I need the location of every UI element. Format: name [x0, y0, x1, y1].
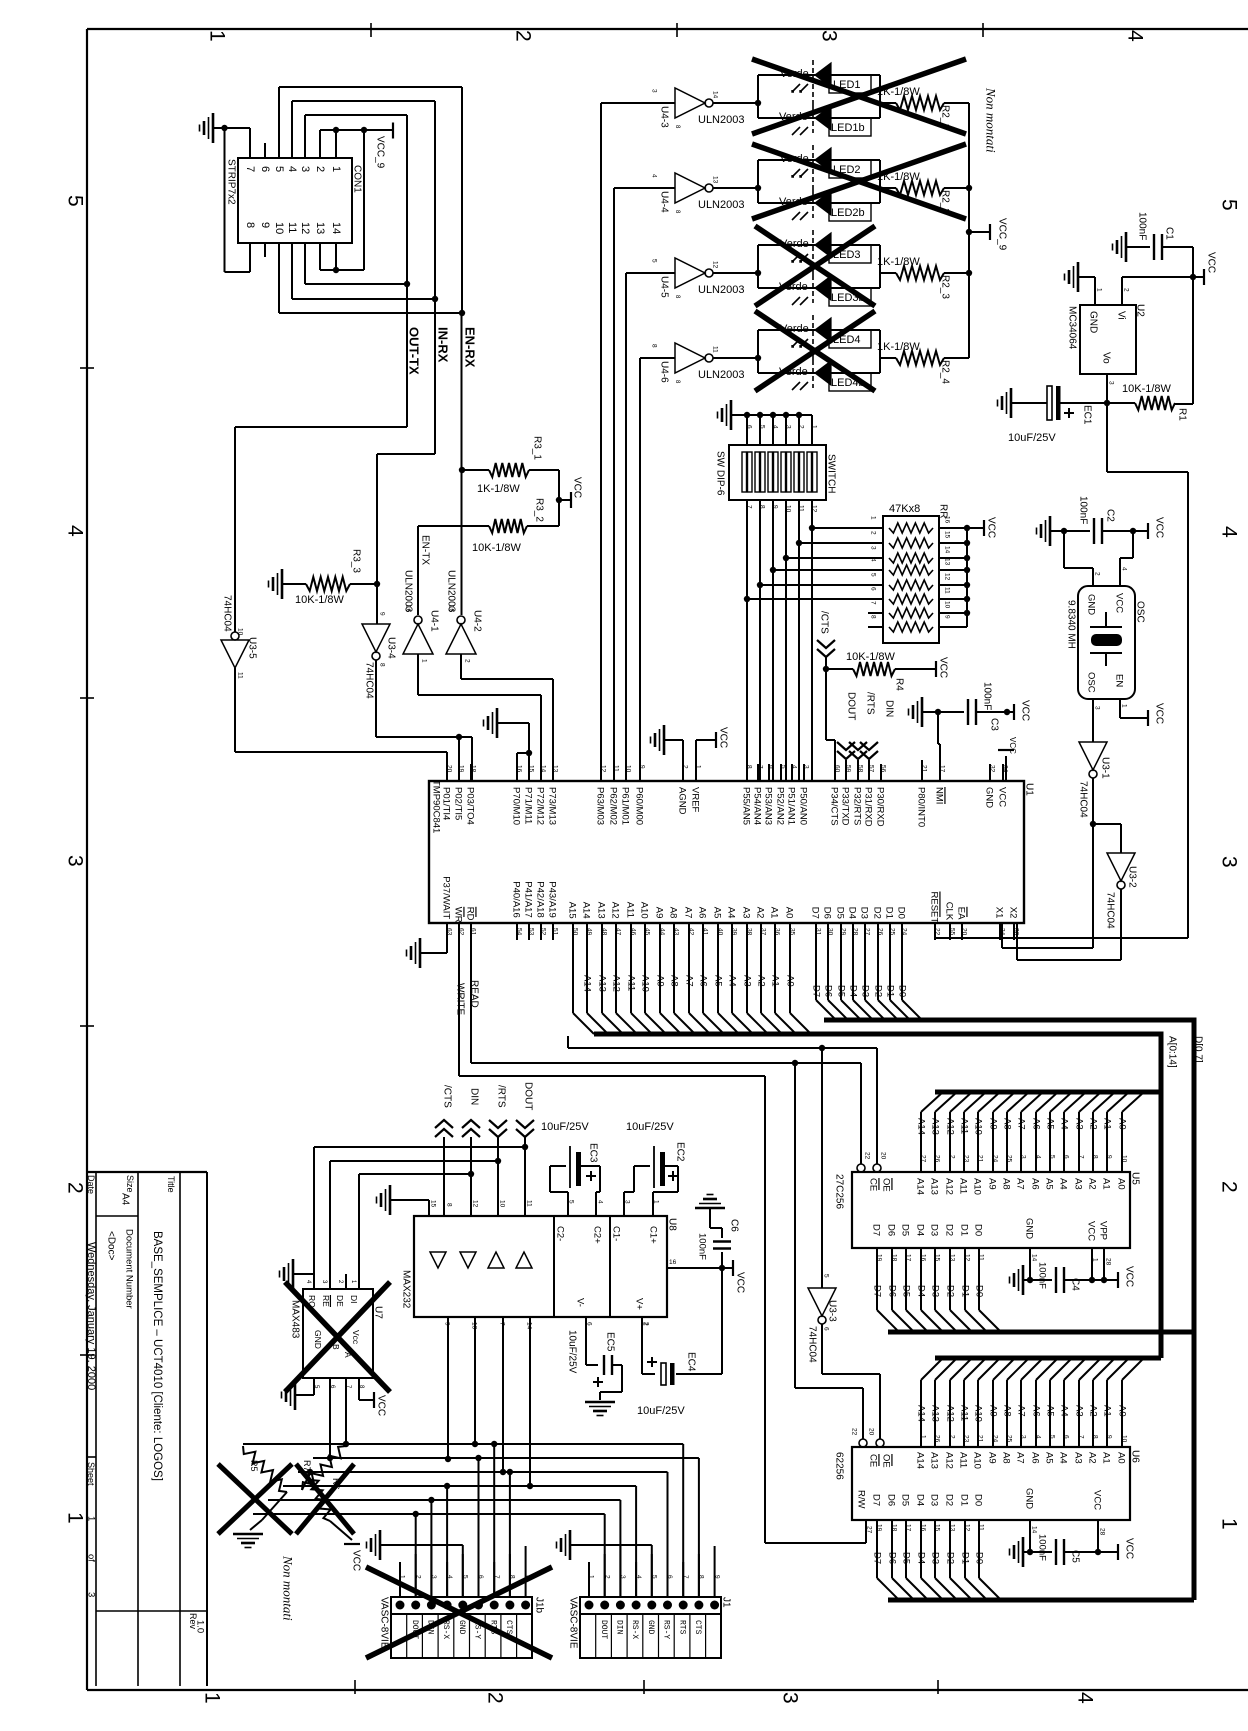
label U5 VCC VPP — [1086, 1221, 1109, 1241]
svg-text:U4-5: U4-5 — [658, 276, 669, 298]
J1 pin 1 — [588, 1575, 595, 1579]
U2 pin2 number — [1123, 288, 1130, 292]
J1b label GND — [457, 1620, 466, 1635]
svg-text:8: 8 — [509, 1575, 516, 1579]
cross-out row LED3 — [755, 226, 875, 306]
power VCC U1 pin64 — [998, 737, 1017, 781]
ground EC5 — [585, 1402, 615, 1416]
svg-text:74HC04: 74HC04 — [221, 595, 232, 632]
label LED2 — [829, 160, 871, 178]
U6 pin 21 — [977, 1435, 984, 1443]
inverter U3-3 74HC04 — [808, 1274, 836, 1331]
wire U3-2 in — [1093, 824, 1121, 853]
J1 pin 5 — [650, 1575, 657, 1579]
svg-text:EC5: EC5 — [604, 1332, 615, 1352]
svg-text:5: 5 — [823, 1274, 830, 1278]
U1 pin 38 A3 — [741, 907, 752, 919]
svg-text:27C256: 27C256 — [833, 1174, 844, 1209]
svg-text:1K-1/8W: 1K-1/8W — [877, 256, 920, 268]
svg-text:7: 7 — [870, 601, 877, 605]
CON1 pin 2 — [314, 166, 326, 172]
cross-out row LED1 — [752, 59, 966, 134]
svg-text:VASC-8VIE: VASC-8VIE — [567, 1597, 578, 1649]
label U2 ref — [1134, 304, 1145, 317]
U6 pin 1 — [920, 1435, 927, 1439]
J1 label RTS — [677, 1620, 686, 1635]
label Non montati top — [983, 87, 998, 153]
svg-text:A2: A2 — [1088, 1118, 1099, 1130]
svg-text:A13: A13 — [597, 975, 608, 992]
U1 pin 19 P02/TI5 — [453, 787, 464, 820]
CON1 pin 4 — [286, 166, 298, 172]
svg-text:VREF: VREF — [690, 787, 701, 813]
CON1 pin 12 — [299, 222, 311, 234]
svg-text:13: 13 — [944, 558, 951, 566]
svg-text:A1: A1 — [1101, 1178, 1112, 1190]
J1b label DIN — [426, 1620, 435, 1635]
svg-text:4: 4 — [446, 1575, 453, 1579]
svg-text:3: 3 — [785, 425, 792, 429]
svg-text:A2: A2 — [1087, 1178, 1098, 1190]
label U6 GND — [1024, 1488, 1035, 1509]
U6 pin 15 — [934, 1524, 941, 1532]
CON1 pin 9 — [259, 222, 271, 228]
wire SW to RR — [757, 500, 866, 781]
svg-text:100nF: 100nF — [697, 1233, 708, 1260]
svg-text:15: 15 — [934, 1524, 941, 1532]
svg-text:16: 16 — [920, 1524, 927, 1532]
svg-text:24: 24 — [992, 1435, 999, 1443]
wire U8 V- — [586, 1317, 598, 1365]
svg-text:10: 10 — [499, 1200, 506, 1208]
RR pin 10 — [944, 601, 951, 609]
svg-text:100nF: 100nF — [981, 682, 992, 710]
svg-text:12: 12 — [964, 1254, 971, 1262]
CON1 pin 9 stub — [264, 243, 266, 257]
U6 top label A6 — [1031, 1405, 1042, 1417]
svg-text:D4: D4 — [848, 985, 859, 997]
svg-text:D7: D7 — [872, 1285, 883, 1297]
label LED3b — [829, 288, 871, 306]
svg-text:74HC04: 74HC04 — [363, 662, 374, 699]
wire U3-4 out — [376, 660, 472, 781]
U5 pin 25 — [1006, 1155, 1013, 1163]
wire U6 D exits — [877, 1520, 1001, 1600]
U5 pin 13 — [949, 1254, 956, 1262]
title block text Doc — [105, 1231, 116, 1261]
svg-text:74HC04: 74HC04 — [1077, 781, 1088, 818]
ground SW — [718, 400, 732, 430]
wire CON1 loop IN-RX — [292, 101, 438, 302]
label U6 VCC — [1092, 1490, 1103, 1510]
svg-text:Wednesday, January 19, 2000: Wednesday, January 19, 2000 — [85, 1242, 97, 1390]
port DIN bottom — [462, 1088, 480, 1216]
svg-text:18: 18 — [891, 1524, 898, 1532]
U5 top label A2 — [1088, 1118, 1099, 1130]
svg-text:15: 15 — [430, 1200, 437, 1208]
svg-text:VCC: VCC — [571, 477, 582, 498]
U6 pin 17 — [905, 1524, 912, 1532]
svg-text:U6: U6 — [1129, 1450, 1140, 1463]
svg-text:/CTS: /CTS — [441, 1085, 452, 1108]
svg-text:C5: C5 — [1069, 1550, 1080, 1563]
U1 pin 35 A0 — [784, 907, 795, 919]
RR pin 3 — [870, 546, 877, 550]
U5 inside label A2 — [1087, 1178, 1098, 1190]
svg-text:3: 3 — [86, 1592, 97, 1597]
label U4-5 ref — [658, 276, 669, 298]
U5 pin 17 — [905, 1254, 912, 1262]
wire OUT-TX descent — [235, 284, 407, 632]
svg-text:A7: A7 — [1016, 1405, 1027, 1417]
J1b pin 7 — [493, 1575, 500, 1579]
svg-text:10K-1/8W: 10K-1/8W — [1122, 383, 1172, 395]
svg-text:14: 14 — [712, 91, 719, 99]
svg-text:A13: A13 — [596, 902, 607, 919]
zone label 1 right — [1217, 1518, 1240, 1530]
U1 pin 62 WR — [453, 907, 464, 923]
RR pin 8 — [870, 615, 877, 619]
wire loop LED3 — [758, 245, 896, 288]
wire U4-5 out — [713, 270, 761, 276]
svg-text:DIN: DIN — [883, 700, 894, 717]
label U6 CE — [868, 1454, 879, 1467]
svg-text:A0: A0 — [784, 907, 795, 919]
bus U6 A thick — [935, 1356, 1161, 1361]
svg-text:22: 22 — [864, 1152, 871, 1160]
svg-text:A9: A9 — [987, 1452, 998, 1464]
label U4-1 ref — [428, 610, 439, 632]
bus label A4 — [727, 975, 738, 987]
J1 label RS-X — [630, 1620, 639, 1639]
svg-text:D1: D1 — [884, 907, 895, 919]
svg-text:10uF/25V: 10uF/25V — [566, 1330, 577, 1374]
title block text A4 — [119, 1193, 130, 1206]
wire R6 vcc — [330, 1521, 352, 1540]
svg-text:4: 4 — [286, 166, 298, 172]
J1b label DOUT — [410, 1620, 419, 1639]
label Verde LED2 — [780, 153, 809, 165]
wire D bus entries — [816, 940, 922, 1020]
RR pin 4 — [870, 558, 877, 562]
U6 inside label D2 — [944, 1494, 955, 1506]
svg-text:U5: U5 — [1129, 1172, 1140, 1185]
wire CON1 gnd loop — [213, 125, 250, 272]
svg-text:U7: U7 — [372, 1306, 383, 1319]
J1b pin 9 — [524, 1575, 531, 1579]
bus label D1 — [885, 985, 896, 997]
wire CON1 pins 1-14 VCC_9 — [320, 127, 393, 273]
svg-text:P30/RXD: P30/RXD — [875, 787, 886, 827]
U6 inside label D6 — [886, 1494, 897, 1506]
LED LED4 — [792, 315, 831, 360]
U1 pin 16 P70/M10 — [511, 787, 522, 825]
U6 pin 25 — [1006, 1435, 1013, 1443]
RR pin 15 — [944, 531, 951, 539]
svg-text:28: 28 — [1105, 1258, 1112, 1266]
svg-text:ULN2003: ULN2003 — [698, 199, 744, 211]
svg-text:P60/M00: P60/M00 — [634, 787, 645, 825]
svg-text:V+: V+ — [634, 1298, 645, 1310]
wire input row U4-5 — [626, 273, 675, 781]
svg-text:P71/M11: P71/M11 — [523, 787, 534, 824]
wire R5 gnd — [250, 1492, 287, 1530]
U1 pin 52 P42/A18 — [535, 881, 546, 917]
bus label A9 — [655, 975, 666, 987]
wire ctrl line — [568, 1036, 877, 1164]
label U3-2 ref — [1126, 866, 1137, 888]
label U3-1 ref — [1099, 757, 1110, 779]
label U6 part 62256 — [833, 1452, 844, 1480]
svg-text:18: 18 — [891, 1254, 898, 1262]
ground U1 AGND — [651, 725, 684, 781]
label U2 part — [1066, 306, 1077, 350]
svg-text:1: 1 — [811, 425, 818, 429]
svg-text:EC4: EC4 — [685, 1352, 696, 1372]
wire input row U4-6 — [640, 358, 675, 781]
svg-text:ULN2003: ULN2003 — [698, 369, 744, 381]
svg-text:VCC_9: VCC_9 — [996, 218, 1007, 251]
power VCC R6 — [344, 1544, 361, 1571]
wire U4-3 out — [713, 100, 761, 106]
svg-text:A8: A8 — [1001, 1452, 1012, 1464]
resistor R4 — [826, 662, 936, 676]
wire RR common — [967, 528, 984, 627]
J1 pin 2 — [603, 1575, 610, 1579]
IC U7 MAX483 box — [303, 1289, 373, 1378]
title block text date value — [85, 1242, 97, 1390]
U6 pin 13 — [949, 1524, 956, 1532]
U5 top label A8 — [1002, 1118, 1013, 1130]
bus label A[0:14] — [1166, 1036, 1177, 1068]
svg-text:U3-3: U3-3 — [826, 1300, 837, 1322]
svg-text:VPP: VPP — [1098, 1221, 1109, 1240]
label R3_3 value — [295, 594, 345, 606]
svg-text:P61/M01: P61/M01 — [620, 787, 631, 825]
U1 pin 51 P43/A19 — [547, 881, 558, 917]
svg-text:MAX483: MAX483 — [289, 1300, 300, 1339]
svg-text:A15: A15 — [567, 902, 578, 919]
label C6 ref — [728, 1219, 739, 1232]
svg-text:A9: A9 — [655, 975, 666, 987]
port /CTS bottom — [435, 1085, 453, 1216]
svg-text:VCC: VCC — [985, 517, 996, 538]
U6 bottom label D1 — [960, 1552, 971, 1564]
svg-text:25: 25 — [1006, 1155, 1013, 1163]
U1 pin 10 P61/M01 — [620, 787, 631, 825]
U6 pin 2 — [949, 1435, 956, 1439]
svg-text:1K-1/8W: 1K-1/8W — [877, 341, 920, 353]
svg-text:D2: D2 — [944, 1494, 955, 1506]
svg-text:8: 8 — [1092, 1435, 1099, 1439]
svg-text:A6: A6 — [1031, 1405, 1042, 1417]
svg-text:10uF/25V: 10uF/25V — [1008, 432, 1056, 444]
U1 pin 43 A8 — [668, 907, 679, 919]
svg-text:R2_3: R2_3 — [939, 275, 950, 299]
LED LED2 — [792, 145, 831, 190]
power VCC R3 — [571, 477, 582, 508]
svg-text:VCC: VCC — [1019, 700, 1030, 721]
U1 pin 25 D1 — [884, 907, 895, 919]
svg-text:5: 5 — [651, 259, 658, 263]
svg-text:A13: A13 — [929, 1452, 940, 1469]
svg-text:CE: CE — [868, 1178, 879, 1191]
resistor R2_2 — [896, 181, 969, 195]
power VCC R4 — [936, 657, 948, 678]
svg-text:11: 11 — [944, 587, 951, 594]
svg-text:7: 7 — [1078, 1155, 1085, 1159]
svg-text:10: 10 — [273, 222, 285, 234]
U6 pin 26 — [934, 1435, 941, 1443]
svg-text:CTS: CTS — [693, 1620, 702, 1635]
crystal symbol — [1090, 612, 1122, 666]
U1 pin 4 P51/AN1 — [786, 787, 797, 825]
J1b pin 6 — [477, 1575, 484, 1579]
label U7 DI — [349, 1295, 359, 1304]
zone tick bottom — [643, 1680, 645, 1694]
svg-text:VCC: VCC — [1205, 252, 1216, 273]
label EC4 value — [637, 1405, 685, 1417]
svg-text:D6: D6 — [886, 1224, 897, 1236]
svg-text:D3: D3 — [930, 1285, 941, 1297]
svg-text:VCC: VCC — [1086, 1221, 1097, 1241]
svg-text:P01/TI4: P01/TI4 — [441, 787, 452, 820]
label U2 Vi — [1115, 311, 1126, 320]
U1 pin 41 A6 — [697, 907, 708, 919]
svg-text:P41/A17: P41/A17 — [523, 881, 534, 917]
label U4-2 part — [445, 570, 456, 613]
U6 inside label A2 — [1087, 1452, 1098, 1464]
wire EC1 — [1011, 402, 1107, 404]
svg-text:100nF: 100nF — [1136, 212, 1147, 240]
label U2 Vo — [1100, 352, 1111, 364]
power VCC U6 — [1118, 1538, 1134, 1560]
U5 pin 24 — [992, 1155, 999, 1163]
label U8 C1+ — [648, 1226, 659, 1244]
svg-text:3: 3 — [1094, 706, 1101, 710]
svg-text:100nF: 100nF — [1037, 1534, 1048, 1561]
U5 inside label A7 — [1015, 1178, 1026, 1190]
svg-text:C1-: C1- — [611, 1226, 622, 1241]
zone label 1 bottom — [200, 1692, 223, 1704]
label U8 V- — [575, 1298, 586, 1307]
U5 inside label A11 — [958, 1178, 969, 1194]
U6 pin 18 — [891, 1524, 898, 1532]
svg-text:R3_2: R3_2 — [533, 498, 544, 522]
svg-text:8: 8 — [870, 615, 877, 619]
U5 pin 11 — [978, 1254, 985, 1261]
label U8 C2+ — [592, 1226, 603, 1244]
svg-text:14: 14 — [1031, 1526, 1038, 1534]
svg-text:R4: R4 — [893, 678, 904, 691]
wire SW to RR — [809, 500, 866, 781]
svg-text:62256: 62256 — [833, 1452, 844, 1480]
zone label 4 left — [63, 525, 86, 537]
zone label 5 right — [1217, 199, 1240, 211]
svg-text:9: 9 — [259, 222, 271, 228]
svg-text:1: 1 — [63, 1512, 86, 1524]
resistor R3_2 — [418, 519, 559, 533]
label U7 Vcc — [351, 1330, 361, 1345]
label Verde LED1b — [779, 111, 808, 123]
svg-text:A0: A0 — [785, 975, 796, 987]
U5 top label A7 — [1016, 1118, 1027, 1130]
CON1 pin 1 — [330, 166, 342, 172]
label U2 GND — [1087, 311, 1098, 333]
svg-text:P32/RTS: P32/RTS — [852, 787, 863, 825]
svg-text:A12: A12 — [611, 975, 622, 992]
svg-text:D4: D4 — [847, 907, 858, 919]
label U3-4 part — [363, 662, 374, 699]
svg-text:A9: A9 — [988, 1405, 999, 1417]
svg-text:VCC: VCC — [1123, 1266, 1134, 1287]
wire input row U4-4 — [614, 188, 675, 781]
U5 inside label A4 — [1058, 1178, 1069, 1190]
svg-text:U3-1: U3-1 — [1099, 757, 1110, 779]
label R3_1 value — [477, 483, 520, 495]
svg-text:D4: D4 — [915, 1224, 926, 1236]
label U5 part 27C256 — [833, 1174, 844, 1209]
capacitor EC3 — [570, 1146, 596, 1188]
label J1b value — [378, 1597, 389, 1649]
U5 pin 7 — [1078, 1155, 1085, 1159]
svg-text:R/W: R/W — [856, 1490, 867, 1509]
U5 bottom label D5 — [901, 1285, 912, 1297]
svg-text:5: 5 — [273, 166, 285, 172]
U6 pin 16 — [920, 1524, 927, 1532]
svg-text:7: 7 — [1078, 1435, 1085, 1439]
svg-text:A8: A8 — [1001, 1178, 1012, 1190]
U5 inside label A10 — [972, 1178, 983, 1195]
bus label D2 — [873, 985, 884, 997]
svg-text:2: 2 — [511, 30, 534, 42]
U1 pin stubs — [447, 764, 1014, 940]
resistor R3_3 — [282, 577, 380, 591]
svg-text:D3: D3 — [929, 1494, 940, 1506]
svg-text:D6: D6 — [823, 985, 834, 997]
svg-text:A5: A5 — [1044, 1178, 1055, 1190]
wire INT0 stub — [921, 760, 923, 781]
svg-text:C6: C6 — [728, 1219, 739, 1232]
U6 pin 10 — [1121, 1435, 1128, 1443]
svg-text:DIN: DIN — [615, 1620, 624, 1635]
label WRITE — [454, 983, 465, 1016]
wire U3-3 out — [822, 1324, 880, 1439]
svg-text:4: 4 — [1121, 567, 1128, 571]
wire U3-5 out — [235, 668, 447, 781]
inverter U4-2 ULN2003 — [446, 605, 476, 663]
J1b label RS-Y — [473, 1620, 482, 1639]
svg-text:VCC: VCC — [1153, 703, 1164, 724]
U1 pin 40 A5 — [712, 907, 723, 919]
label Verde LED4b — [779, 366, 808, 378]
capacitor EC1 — [1047, 386, 1074, 420]
svg-text:A4: A4 — [1059, 1118, 1070, 1130]
RR pin 9 — [944, 615, 951, 619]
label R2_1 value — [877, 86, 920, 98]
svg-text:8: 8 — [446, 1203, 453, 1207]
U5 pin 16 — [920, 1254, 927, 1262]
wire U7 link3 — [359, 1171, 474, 1289]
svg-text:1: 1 — [421, 659, 428, 663]
IC U6 62256 box — [852, 1447, 1130, 1520]
ground C3 — [909, 697, 923, 727]
inverter U4-5 ULN2003 — [651, 258, 719, 299]
svg-text:R3_3: R3_3 — [350, 549, 361, 573]
SW pin 1 — [811, 425, 818, 429]
U1 pin 7 P54/AN4 — [752, 787, 763, 825]
wire EN-RX descent — [461, 313, 463, 615]
